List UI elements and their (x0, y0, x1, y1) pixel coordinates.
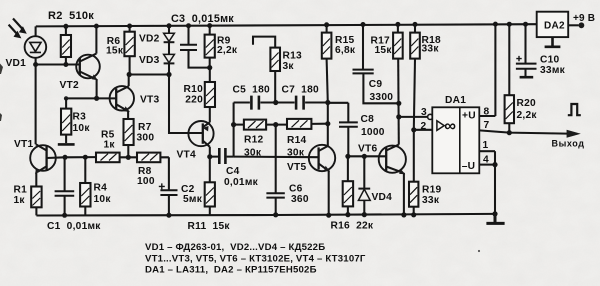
svg-text:360: 360 (291, 194, 309, 205)
resistor R12 (244, 120, 266, 130)
svg-text:VD1: VD1 (6, 58, 27, 69)
node C1 ground (62, 213, 67, 218)
svg-text:VT6: VT6 (358, 144, 378, 155)
capacitor C3 (180, 26, 210, 68)
node rail-C3 (186, 23, 191, 28)
wire VT4 collector down (209, 147, 211, 183)
svg-text:15к: 15к (106, 46, 124, 57)
wire pins 1-4 to ground (494, 151, 496, 214)
node VT4c-C4 (207, 154, 212, 159)
node R16 ground (345, 212, 350, 217)
wire VT6 emitter to ground (403, 173, 405, 215)
resistor R16 (343, 156, 353, 214)
svg-text:VD1 – ФД263-01, VD2...VD4 – К: VD1 – ФД263-01, VD2...VD4 – КД522Б (145, 242, 325, 253)
node VT6e ground (401, 212, 406, 217)
svg-text:Выход: Выход (552, 139, 585, 149)
wire DA2 to +9V (568, 24, 578, 26)
node R20 bottom (507, 130, 512, 135)
node rail C10 (523, 22, 528, 27)
svg-text:1к: 1к (104, 140, 116, 151)
svg-text:100: 100 (137, 176, 155, 187)
wire VT3 collector up (128, 75, 130, 87)
node C8-VT6 base (345, 154, 350, 159)
transistor VT1 (30, 144, 96, 174)
wire VT6 base line (348, 155, 386, 157)
node rail pin8 (493, 22, 498, 27)
svg-text:R13: R13 (283, 51, 303, 62)
svg-text:5мк: 5мк (183, 194, 203, 205)
wire VT1 emitter to R1 (35, 173, 37, 187)
svg-text:2: 2 (421, 121, 427, 132)
resistor R10 (205, 68, 215, 123)
node VD4 top (362, 154, 367, 159)
capacitor C10 (516, 24, 537, 76)
ground symbol DA1 (486, 214, 504, 224)
resistor R11 (205, 182, 215, 215)
svg-text:3300: 3300 (370, 92, 394, 103)
wire VD1 to VT1 collector (35, 65, 37, 145)
svg-text:VD4: VD4 (372, 192, 393, 203)
node VD1-R2 junction (33, 62, 38, 67)
node rail-R2 (63, 24, 68, 29)
pulse waveform symbol (568, 104, 581, 115)
node rail-R15 (324, 22, 329, 27)
svg-text:C9: C9 (369, 79, 383, 90)
wire pin 2 (414, 129, 433, 131)
resistor R20 (505, 24, 514, 132)
wire pin 3 (399, 116, 428, 118)
svg-text:–U: –U (462, 161, 476, 172)
resistor R15 (322, 25, 332, 103)
ground symbol C10 (520, 76, 534, 79)
resistor R6 (124, 26, 134, 75)
resistor R18 (410, 24, 420, 181)
svg-text:33мк: 33мк (540, 65, 566, 76)
pin 7 output wire (479, 130, 567, 133)
resistor R9 (205, 26, 215, 68)
pin 4 wire (479, 164, 495, 166)
diode VD2 (164, 26, 175, 55)
svg-text:DA1: DA1 (445, 95, 466, 106)
wire VD3 node to VT4 base (169, 75, 203, 134)
pin 1 wire (479, 150, 495, 152)
inversion bubble pin 3 (428, 114, 433, 119)
node VT2e junction (94, 96, 99, 101)
svg-text:10к: 10к (73, 123, 91, 134)
resistor R8 (137, 153, 160, 163)
capacitor C4 (210, 148, 234, 164)
svg-text:4: 4 (483, 154, 489, 165)
wire VT2 emitter down (96, 79, 98, 98)
wire ground bottom rail (36, 214, 495, 216)
output arrowhead (567, 130, 581, 138)
node pin4 (492, 162, 497, 167)
resistor R19 (409, 182, 418, 215)
diode VD4 (358, 156, 370, 214)
node C6 top (273, 122, 278, 127)
node R12 left (231, 122, 236, 127)
svg-text:R12: R12 (244, 135, 264, 146)
svg-text:2,2к: 2,2к (217, 45, 238, 56)
svg-text:300: 300 (137, 133, 155, 144)
node pin2-R18 (411, 127, 416, 132)
svg-text:C7 180: C7 180 (282, 84, 320, 95)
wire R15 to VT5 collector (327, 103, 329, 147)
resistor R7 (124, 119, 134, 157)
svg-text:3к: 3к (283, 61, 295, 72)
svg-text:VT1...VT3, VT5, VT6 – КТ3102Е,: VT1...VT3, VT5, VT6 – КТ3102Е, VT4 – КТ3… (145, 253, 366, 264)
svg-text:220: 220 (185, 94, 203, 105)
svg-text:C3 0,015мк: C3 0,015мк (171, 13, 234, 25)
svg-text:1: 1 (483, 140, 489, 151)
svg-text:R14: R14 (287, 135, 307, 146)
svg-text:33к: 33к (422, 195, 440, 206)
svg-text:R19: R19 (422, 185, 442, 196)
transistor VT6 (379, 145, 406, 175)
svg-text:8: 8 (484, 107, 490, 118)
svg-text:7: 7 (484, 120, 490, 131)
node R13 bottom (273, 100, 278, 105)
node VT5e ground (326, 213, 331, 218)
node C2 ground (166, 213, 171, 218)
node VT3 collector (127, 72, 132, 77)
wire VT5 emitter to ground rail (328, 171, 330, 216)
svg-text:VT3: VT3 (140, 95, 160, 106)
svg-text:VT1: VT1 (14, 139, 34, 150)
node R3 top (64, 96, 68, 100)
capacitor C1 (55, 157, 75, 215)
svg-text:15к: 15к (375, 45, 393, 56)
svg-text:R16 22к: R16 22к (331, 221, 374, 232)
transistor VT3 (110, 86, 134, 112)
wire to C8 (328, 103, 349, 123)
diode VD3 (164, 54, 175, 74)
svg-text:∞: ∞ (444, 117, 456, 135)
svg-text:6,8к: 6,8к (335, 45, 356, 56)
wire VT3 emitter to R7 (127, 111, 129, 120)
resistor R14 (287, 119, 311, 129)
wire C8 bottom (347, 127, 349, 157)
node rail-R6 (127, 24, 132, 29)
node R9-R10-C3 (207, 65, 212, 70)
svg-text:+U: +U (462, 111, 476, 122)
wire R12-R14 (266, 124, 287, 126)
node R7 bottom (126, 155, 131, 160)
svg-text:DA2: DA2 (544, 21, 565, 32)
svg-text:R11 15к: R11 15к (188, 221, 231, 232)
wire R14 right to VT5 collector column (311, 123, 327, 125)
svg-text:2,2к: 2,2к (517, 110, 538, 121)
transistor VT4 (188, 121, 213, 147)
wire VT2 collector to rail (95, 26, 97, 53)
node rail-VD2 (167, 23, 172, 28)
svg-text:R2 510к: R2 510к (48, 10, 94, 22)
resistor R3 (61, 98, 71, 143)
node +9V terminal (579, 22, 585, 28)
svg-text:C5 180: C5 180 (233, 84, 271, 95)
wire VD1 node (36, 63, 80, 65)
node ground rail end (492, 211, 497, 216)
wire to R12 (234, 124, 244, 126)
svg-text:1к: 1к (14, 195, 26, 206)
svg-text:10к: 10к (94, 194, 112, 205)
capacitor C2 (159, 183, 178, 215)
svg-text:R20: R20 (517, 98, 537, 109)
svg-text:VT4: VT4 (177, 150, 197, 161)
node C6 ground (273, 212, 278, 217)
op-amp DA1 (432, 107, 479, 173)
node rail-C9 (361, 22, 366, 27)
svg-text:VT2: VT2 (60, 80, 80, 91)
transistor VT2 (76, 54, 100, 81)
resistor R13 (253, 37, 280, 103)
node C5C7-R15 (325, 100, 330, 105)
resistor R2 (61, 26, 71, 64)
node rail-VT2 (94, 24, 99, 29)
wire C4 to R12 riser (233, 103, 235, 157)
svg-text:C6: C6 (289, 184, 303, 195)
wire +U top rail (36, 24, 537, 26)
node R14-VT5c (325, 121, 330, 126)
svg-text:C4: C4 (226, 166, 240, 177)
svg-text:VD2: VD2 (139, 33, 160, 44)
capacitor C7 (296, 96, 304, 110)
svg-text:30к: 30к (244, 148, 262, 159)
node R19 ground (411, 212, 416, 217)
node rail-R9 (207, 23, 212, 28)
capacitor C8 (339, 122, 358, 126)
node C9-VT6c (396, 101, 401, 106)
svg-text:R7: R7 (138, 122, 152, 133)
resistor R5 (96, 153, 120, 163)
svg-text:R4: R4 (94, 183, 108, 194)
svg-text:C8: C8 (361, 114, 375, 125)
ground under R3 (58, 143, 75, 146)
scan edge marks (0, 64, 3, 122)
svg-text:+9 В: +9 В (573, 13, 595, 24)
resistor R17 (393, 24, 403, 58)
voltage regulator DA2 (537, 12, 569, 37)
wire C5 C7 line (234, 101, 328, 103)
node rail R20 (507, 22, 512, 27)
wire VT3c/R6 to VD3 node (129, 73, 169, 75)
svg-text:0,01мк: 0,01мк (224, 177, 259, 188)
node rail-R17 (395, 22, 400, 27)
wire emitter line to VT3 base (66, 97, 116, 99)
svg-text:1000: 1000 (361, 127, 385, 138)
wire R5-R8 (120, 156, 137, 158)
svg-text:VD3: VD3 (139, 55, 160, 66)
node base VT1 / C1 (63, 155, 68, 160)
photodiode VD1 (9, 19, 47, 65)
capacitor C5 (251, 96, 259, 110)
node VD3 bottom (166, 72, 171, 77)
svg-text:R3: R3 (73, 112, 87, 123)
wire VT5 base line from C4 (234, 156, 319, 159)
svg-text:C1 0,01мк: C1 0,01мк (47, 221, 101, 232)
ground symbol DA2 (545, 37, 561, 47)
resistor R1 (31, 187, 41, 216)
wire R8 to C2 (160, 157, 169, 190)
svg-text:R1: R1 (14, 185, 28, 196)
node rail-R18 (413, 22, 418, 27)
wire VT6 collector to R17 (397, 59, 400, 145)
pin 8 wire (479, 24, 495, 116)
capacitor C9 (353, 25, 399, 104)
node pin3-VT6c (396, 114, 401, 119)
node VD4 ground (362, 212, 367, 217)
svg-text:3: 3 (421, 107, 427, 118)
resistor R4 (80, 157, 90, 215)
transistor VT5 (309, 145, 335, 172)
svg-text:30к: 30к (287, 148, 305, 159)
svg-text:DA1 – LA311, DA2 – КР1157ЕН50: DA1 – LA311, DA2 – КР1157ЕН502Б (145, 264, 317, 275)
capacitor C6 (266, 125, 284, 215)
svg-text:C10: C10 (540, 55, 560, 66)
svg-text:VT5: VT5 (287, 162, 307, 173)
svg-text:33к: 33к (422, 44, 440, 55)
